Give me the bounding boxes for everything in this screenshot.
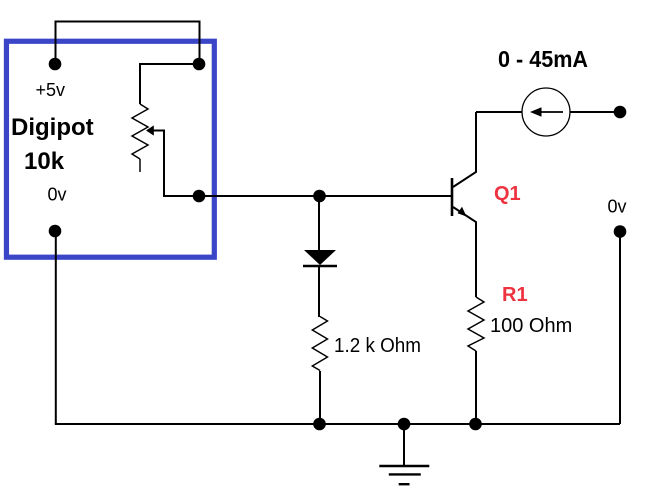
wire top loop from +5v terminal to pot top terminal — [56, 22, 200, 65]
svg-text:0 - 45mA: 0 - 45mA — [498, 46, 588, 72]
transistor Q1 emitter — [453, 207, 476, 297]
svg-text:R1: R1 — [502, 284, 528, 306]
diode D1 — [304, 250, 336, 265]
wire diode anode lead — [318, 196, 320, 250]
svg-text:Digipot: Digipot — [11, 114, 94, 141]
transistor Q1 emitter arrow — [458, 207, 467, 217]
resistor R1 — [468, 297, 484, 351]
wire wiper to output dot — [153, 131, 200, 197]
svg-text:+5v: +5v — [36, 80, 66, 100]
node wiper output terminal — [193, 190, 206, 203]
wire bottom ground rail — [55, 423, 620, 425]
node +5v terminal — [49, 58, 62, 71]
wire current source left lead — [476, 111, 522, 113]
current source arrow — [537, 111, 563, 113]
ground symbol — [403, 424, 405, 466]
digipot module box (blue) — [6, 41, 214, 257]
svg-text:10k: 10k — [24, 148, 65, 175]
svg-text:0v: 0v — [48, 185, 67, 205]
node R1 bottom junction — [469, 418, 482, 431]
node 0v terminal — [49, 225, 62, 238]
transistor Q1 collector — [453, 112, 476, 187]
wire R1 bottom lead — [475, 351, 477, 424]
wire 1.2k bottom lead — [319, 371, 321, 424]
node 0v right terminal — [614, 225, 627, 238]
node diode junction — [313, 190, 326, 203]
wire left 0v lead down — [55, 231, 57, 424]
wire right 0v lead down — [619, 232, 621, 424]
transistor Q1 base bar — [451, 178, 454, 216]
pot wiper arrow — [146, 125, 154, 135]
svg-text:1.2 k Ohm: 1.2 k Ohm — [334, 335, 421, 357]
wire diode cathode lead — [318, 266, 320, 317]
node pot top terminal — [193, 58, 206, 71]
resistor 1.2k — [312, 317, 327, 371]
current source CS1 circle — [522, 88, 570, 136]
svg-text:100 Ohm: 100 Ohm — [490, 315, 572, 337]
wire base net: wiper out to transistor base — [199, 195, 452, 197]
wire current source right lead — [570, 111, 620, 113]
potentiometer body (digipot 10k) — [132, 104, 148, 159]
node 1.2k bottom junction — [313, 418, 326, 431]
node ground junction — [398, 418, 411, 431]
pot bottom stub — [139, 159, 141, 172]
svg-text:Q1: Q1 — [494, 183, 521, 205]
svg-text:0v: 0v — [608, 197, 627, 217]
node current source output terminal — [614, 106, 627, 119]
wire pot top lead — [140, 64, 199, 104]
